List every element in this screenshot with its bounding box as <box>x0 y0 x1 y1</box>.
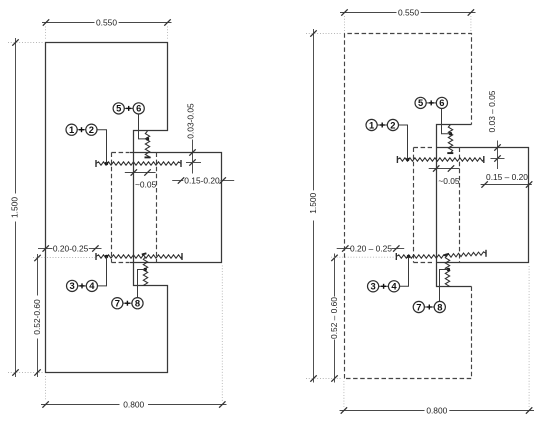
electrode label circle 6 <box>133 103 144 114</box>
bottom seam left end bar <box>95 253 97 260</box>
wire from electrodes 3+4 to bottom seam (right panel) <box>400 257 409 287</box>
wire from electrodes 5+6 to upper coil <box>139 114 148 139</box>
svg-text:1: 1 <box>369 119 374 130</box>
svg-text:0.52 – 0.60: 0.52 – 0.60 <box>329 297 339 339</box>
svg-text:8: 8 <box>437 301 442 312</box>
wire from electrodes 5+6 to upper coil (right panel) <box>442 109 451 134</box>
top weld seam zigzag (left panel) <box>96 162 181 165</box>
svg-text:7: 7 <box>115 298 120 309</box>
upper coil end bar <box>145 156 151 158</box>
bottom weld seam zigzag (right panel) <box>396 255 446 258</box>
svg-text:6: 6 <box>439 97 444 108</box>
svg-text:0.550: 0.550 <box>398 7 419 17</box>
extension dotted lines for 0.800 <box>46 266 223 402</box>
electrode pair 1+2 lead line <box>77 129 86 131</box>
junction node of wires 1+2 on top seam (right panel) <box>406 158 409 161</box>
bottom seam right end bar <box>181 253 183 260</box>
electrode label circle 4 <box>388 281 399 292</box>
small weld mark on bottom seam (right panel) <box>444 254 449 255</box>
electrode label circle 5 <box>415 97 426 108</box>
electrode label circle 2 <box>387 119 398 130</box>
electrode pair 7+8 right lead line <box>424 306 434 308</box>
wire from electrodes 1+2 to top seam <box>97 130 107 164</box>
svg-text:1.500: 1.500 <box>10 197 20 218</box>
electrode pair 5+6 right lead line <box>426 102 436 104</box>
svg-text:1: 1 <box>69 124 74 135</box>
dimension 1.500 left (left panel) <box>15 38 17 194</box>
hidden overlap region dashed edges (left panel) <box>111 153 113 263</box>
svg-text:8: 8 <box>135 298 140 309</box>
electrode label circle 2 <box>86 124 97 135</box>
electrode pair 3+4 lead line <box>78 285 87 287</box>
electrode label circle 1 <box>66 124 77 135</box>
small weld mark on bottom seam <box>142 253 147 254</box>
svg-text:2: 2 <box>89 124 94 135</box>
dimension 0.800 bottom (left panel) <box>41 404 120 406</box>
junction node of wires 3+4 on bottom seam <box>105 255 108 258</box>
junction node of wires 1+2 on top seam <box>105 162 108 165</box>
dimension 0.52 - 0.60 (right panel) <box>334 254 336 297</box>
plus sign between 5 and 6 <box>429 102 434 104</box>
electrode pair 7+8 lead line <box>123 302 132 304</box>
bottom seam right end bar (right panel) <box>485 250 487 257</box>
plus sign between 5 and 6 <box>126 107 131 109</box>
upper connection coil (left panel) <box>145 131 149 157</box>
electrode label circle 4 <box>86 280 97 291</box>
extension dotted line at bottom seam level (right panel) <box>331 256 396 258</box>
dimension 0.52-0.60 (left panel) <box>37 254 39 296</box>
middle strip visible outline (right panel) <box>437 125 472 287</box>
top seam left end bar (right panel) <box>396 156 398 163</box>
dimension 0.03 - 0.05 (right panel) <box>497 141 499 170</box>
junction node of wires 7+8 on lower coil <box>144 268 147 271</box>
bottom seam left end bar (right panel) <box>395 253 397 260</box>
upper coil end bar (right panel) <box>447 152 453 154</box>
electrode pair 5+6 lead line <box>124 107 133 109</box>
svg-text:1.500: 1.500 <box>308 192 318 213</box>
extension dotted lines for 0.550 (right panel) <box>345 16 471 32</box>
electrode label circle 6 <box>436 97 447 108</box>
bottom weld seam zigzag (left panel) <box>96 255 182 258</box>
right fabric plate visible outline (right panel) <box>436 148 529 263</box>
svg-text:3: 3 <box>370 281 375 292</box>
extension dotted lines for 1.500 <box>8 43 44 373</box>
upper connection coil (right panel) <box>448 125 452 153</box>
top seam right end bar <box>180 160 182 167</box>
dimension 0.550 top (left panel) <box>42 22 95 24</box>
svg-text:0.800: 0.800 <box>426 405 447 415</box>
electrode label circle 5 <box>113 103 124 114</box>
svg-text:6: 6 <box>136 103 141 114</box>
svg-text:~0.05: ~0.05 <box>135 179 157 189</box>
svg-text:0.20 – 0.25: 0.20 – 0.25 <box>350 243 392 253</box>
electrode pair 1+2 right lead line <box>377 124 387 126</box>
right fabric plate visible outline (left panel) <box>130 153 222 263</box>
dimension 0.03-0.05 (left panel) <box>192 140 194 174</box>
svg-text:5: 5 <box>116 103 121 114</box>
dimension 0.550 top (right panel) <box>340 12 397 14</box>
wire from electrodes 1+2 to top seam (right panel) <box>399 125 408 160</box>
electrode label circle 7 <box>413 301 424 312</box>
top seam right end bar (right panel) <box>483 156 485 163</box>
plus sign between 1 and 2 <box>79 129 84 131</box>
hidden lower fabric plate dashed outline (right panel) <box>345 287 472 379</box>
svg-text:0.03-0.05: 0.03-0.05 <box>186 103 196 139</box>
electrode label circle 7 <box>112 298 123 309</box>
junction node of wires 7+8 on lower coil (right panel) <box>447 268 450 271</box>
svg-text:0.550: 0.550 <box>96 17 117 27</box>
dimension ~0.05 (right panel) <box>429 168 460 170</box>
electrode label circle 8 <box>434 301 445 312</box>
electrode label circle 8 <box>132 298 143 309</box>
dimension 0.20-0.25 (left panel) <box>38 248 53 250</box>
svg-text:0.15 – 0.20: 0.15 – 0.20 <box>486 172 528 182</box>
svg-text:0.20-0.25: 0.20-0.25 <box>53 243 89 253</box>
top weld seam zigzag (right panel) <box>397 158 483 161</box>
extension dotted lines for 0.800 (right panel) <box>344 266 529 407</box>
svg-text:4: 4 <box>89 280 95 291</box>
plus sign between 7 and 8 <box>427 306 432 308</box>
electrode pair 3+4 right lead line <box>379 285 389 287</box>
svg-text:0.800: 0.800 <box>123 399 144 409</box>
svg-text:7: 7 <box>416 301 421 312</box>
hidden upper fabric plate dashed outline (right panel) <box>345 34 472 379</box>
lower connection coil (right panel) <box>445 255 449 286</box>
electrode label circle 3 <box>368 281 379 292</box>
svg-text:3: 3 <box>69 280 74 291</box>
hidden overlap region dashed edges (right panel) <box>413 148 415 263</box>
electrode label circle 1 <box>366 119 377 130</box>
dimension 0.20 - 0.25 (right panel) <box>337 248 351 250</box>
svg-text:0.15-0.20: 0.15-0.20 <box>184 175 220 185</box>
wire from electrodes 7+8 to lower coil (right panel) <box>440 270 449 302</box>
plus sign between 1 and 2 <box>380 124 385 126</box>
plus sign between 7 and 8 <box>125 302 130 304</box>
wire from electrodes 7+8 to lower coil <box>138 270 146 298</box>
junction node of wires 5+6 on upper coil <box>146 137 149 140</box>
svg-text:0.03 – 0.05: 0.03 – 0.05 <box>487 90 497 132</box>
dimension 1.500 left (right panel) <box>313 29 315 190</box>
extension dotted line at bottom seam level <box>33 257 96 259</box>
extension dotted lines for 1.500 (right panel) <box>306 34 341 379</box>
svg-text:2: 2 <box>390 119 395 130</box>
dimension 0.15 - 0.20 (right panel) <box>481 184 532 186</box>
svg-text:4: 4 <box>391 281 397 292</box>
plus sign between 3 and 4 <box>80 285 85 287</box>
dimension 0.800 bottom (right panel) <box>340 410 425 412</box>
wire from electrodes 3+4 to bottom seam <box>98 257 107 286</box>
svg-text:~0.05: ~0.05 <box>438 176 460 186</box>
plus sign between 3 and 4 <box>381 285 386 287</box>
svg-text:0.52-0.60: 0.52-0.60 <box>32 299 42 335</box>
junction node of wires 5+6 on upper coil (right panel) <box>449 132 452 135</box>
extension dotted lines for 0.550 <box>46 27 168 41</box>
electrode label circle 3 <box>67 280 78 291</box>
junction node of wires 3+4 on bottom seam (right panel) <box>407 255 410 258</box>
svg-text:5: 5 <box>418 97 423 108</box>
upper fabric plate outline (left panel) <box>46 43 168 373</box>
lower connection coil (left panel) <box>143 257 147 286</box>
top seam left end bar <box>95 160 97 167</box>
dimension ~0.05 (left panel) <box>125 172 156 174</box>
dimension 0.15-0.20 (left panel) <box>172 180 183 182</box>
